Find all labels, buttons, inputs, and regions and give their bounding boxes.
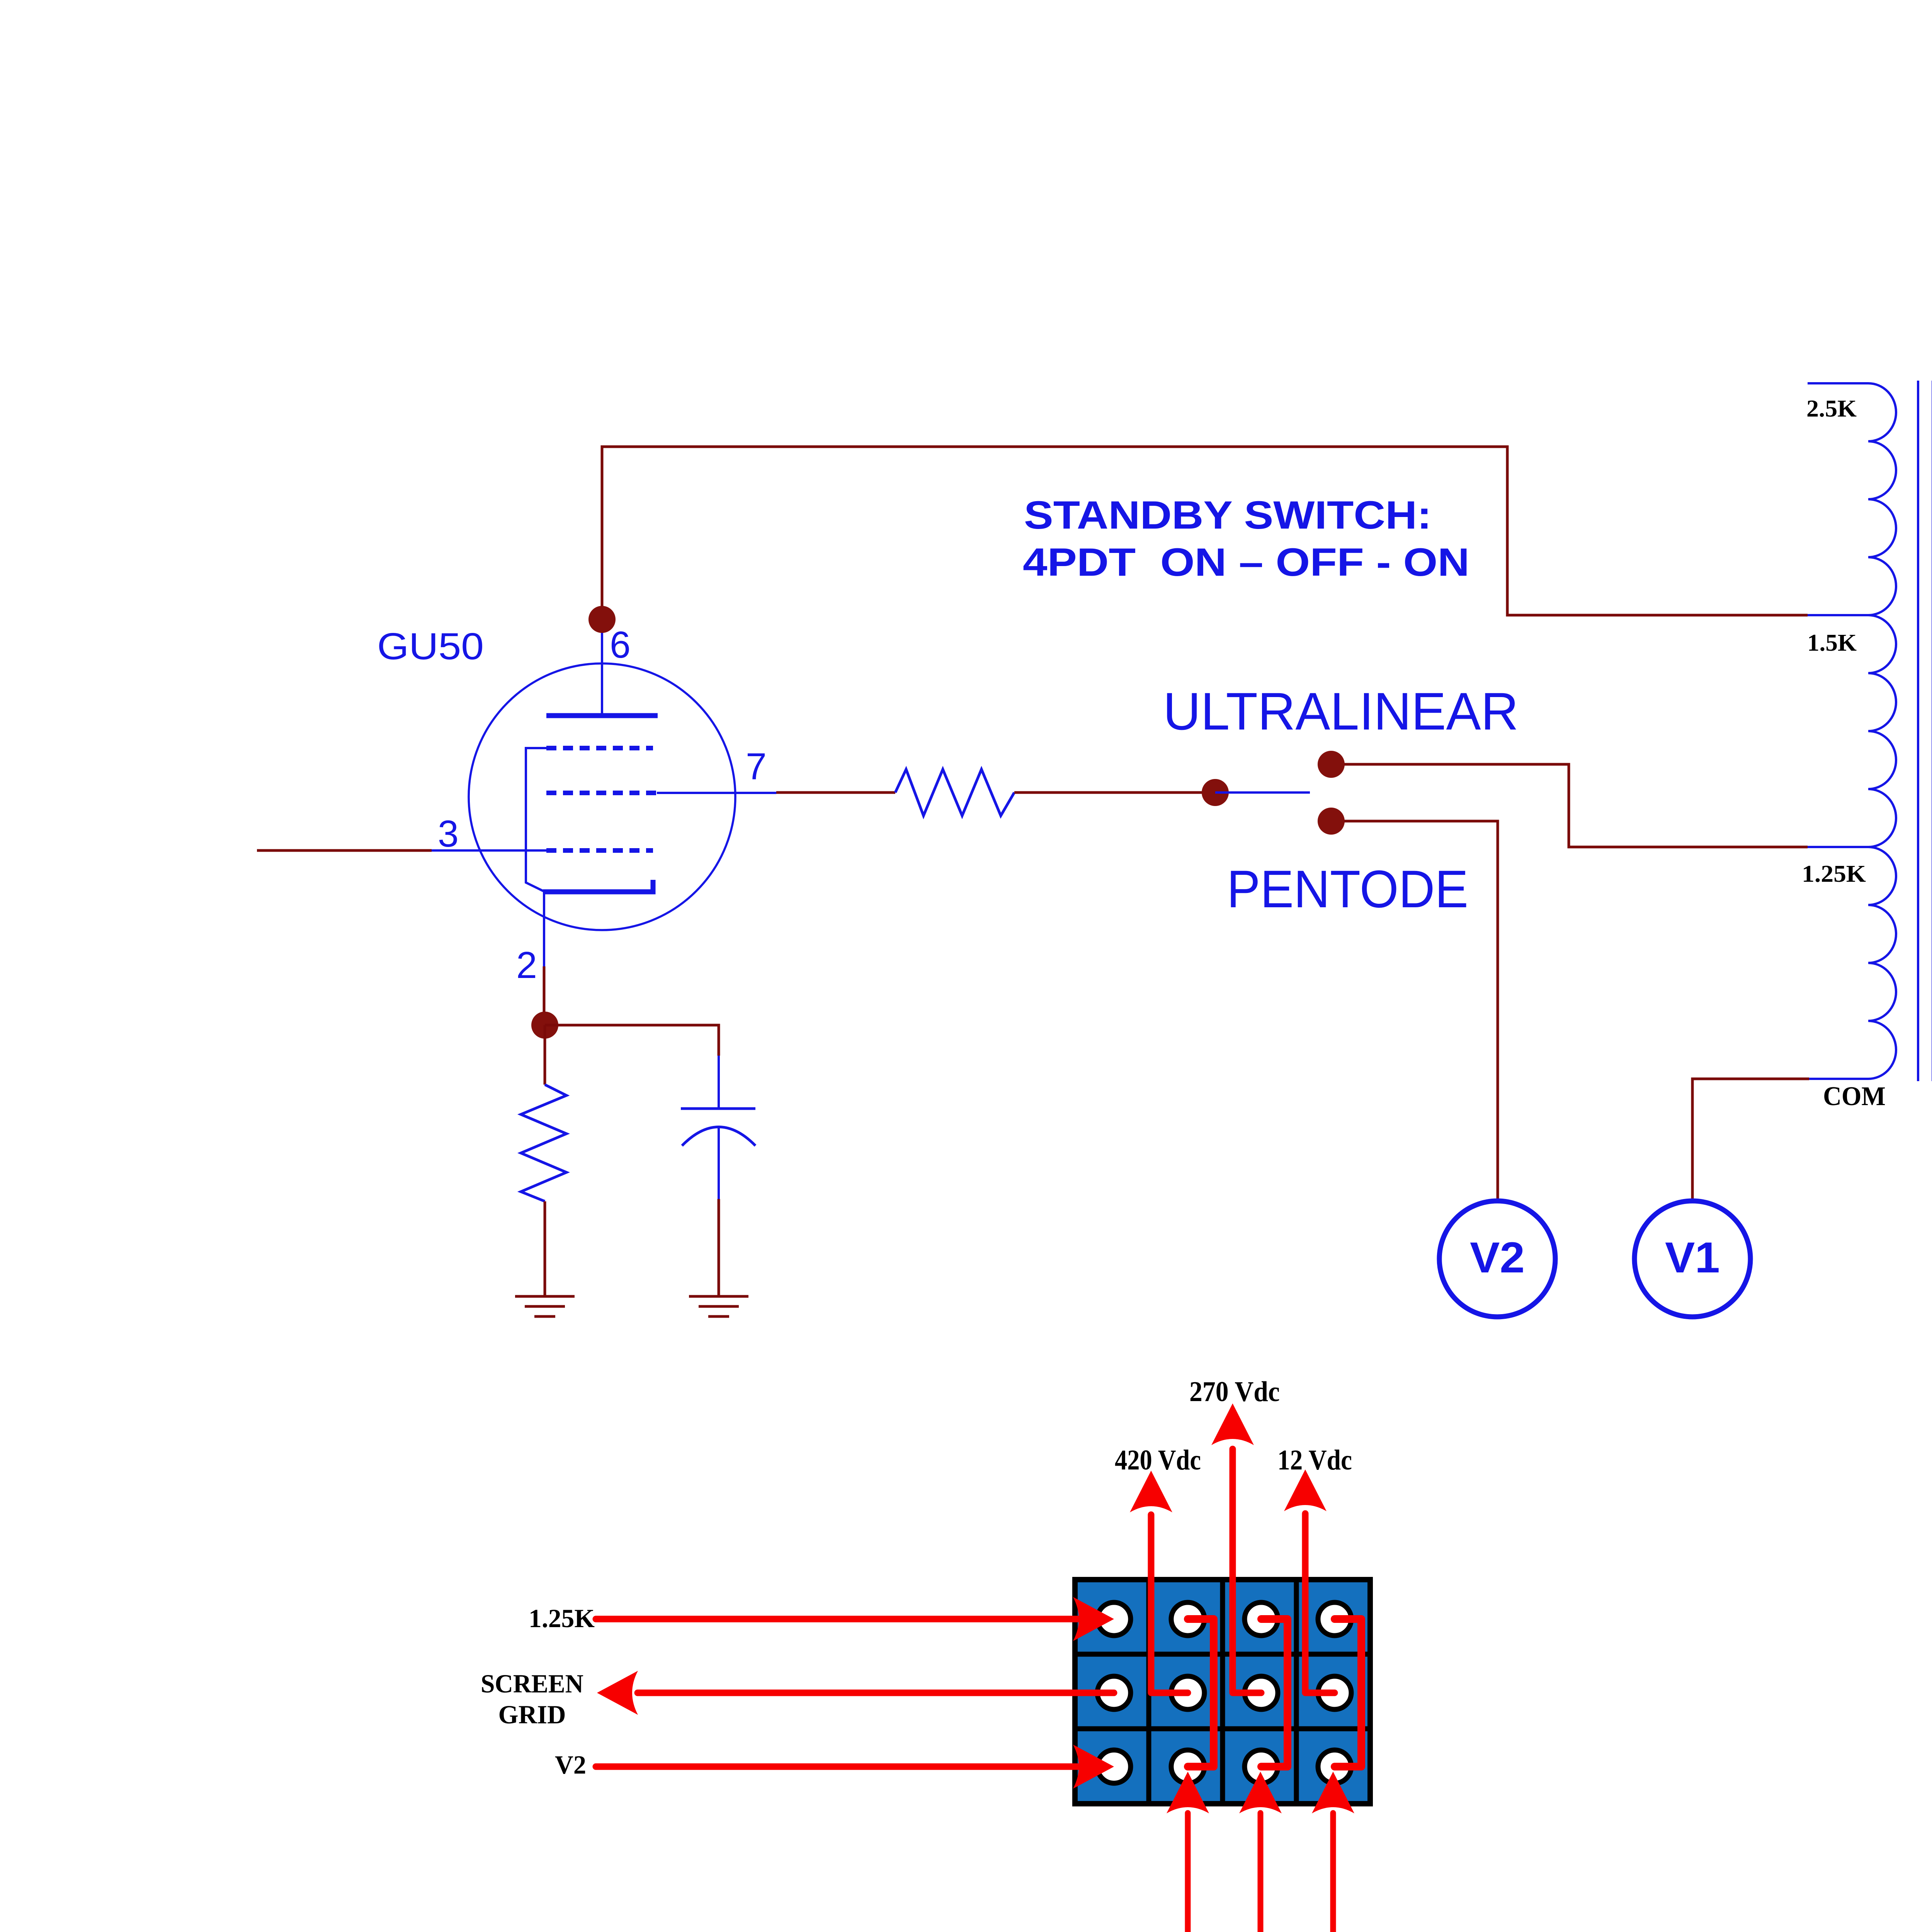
tube cathode: [543, 880, 653, 892]
wire pin3 lead (blue): [432, 849, 547, 852]
red line 12 Vdc: [1305, 1514, 1335, 1693]
wire R1 to switch pole: [1014, 791, 1215, 794]
primary tap 1.25K lead: [1808, 846, 1868, 848]
tube control grid (dashed): [546, 848, 653, 853]
red line 270 Vdc: [1233, 1449, 1261, 1693]
svg-text:2.5K: 2.5K: [1806, 396, 1857, 422]
terminal block TB1 cells: [1075, 1580, 1370, 1804]
red line SCREEN GRID: [638, 1690, 1114, 1696]
svg-text:4PDT ON – OFF - ON: 4PDT ON – OFF - ON: [1023, 540, 1469, 584]
capacitor C1 bottom lead (blue): [718, 1127, 720, 1199]
resistor R1 grid stopper: [895, 769, 1014, 816]
arrowhead 12 Vdc (up): [1284, 1469, 1327, 1511]
grid interconnect wire: [526, 748, 546, 891]
svg-text:7: 7: [746, 745, 767, 787]
primary tap 2.5K lead: [1808, 382, 1868, 384]
terminal holes row3: [1097, 1750, 1351, 1783]
primary tap COM lead: [1809, 1078, 1868, 1080]
red bottom arrow into col2 row3: [1185, 1813, 1191, 1932]
svg-text:3: 3: [438, 813, 459, 855]
transformer T1 primary winding: [1868, 383, 1896, 1079]
arrowhead 270 Vdc (up): [1211, 1403, 1254, 1445]
svg-text:STANDBY SWITCH:: STANDBY SWITCH:: [1024, 493, 1432, 537]
red jumper col4 row1-row3: [1335, 1619, 1361, 1767]
svg-text:COM: COM: [1823, 1082, 1886, 1111]
svg-text:1.25K: 1.25K: [1802, 861, 1866, 887]
svg-text:GRID: GRID: [498, 1700, 566, 1729]
wire node to resistor R2: [544, 1025, 546, 1085]
red bottom arrow into col4 row3: [1330, 1813, 1336, 1932]
tube plate (anode): [546, 713, 658, 718]
junction dot switch pole: [1202, 779, 1229, 806]
wire node to capacitor C1: [545, 1025, 719, 1056]
wire R2 to ground: [544, 1201, 546, 1296]
svg-text:6: 6: [610, 624, 631, 666]
BLOCK-SECTION: [481, 1376, 1370, 1932]
tube screen grid (dashed): [546, 746, 653, 750]
arrowhead SCREEN GRID (left): [597, 1671, 638, 1715]
red line 420 Vdc: [1151, 1515, 1188, 1693]
svg-text:GU50: GU50: [377, 625, 484, 667]
svg-text:1.25K: 1.25K: [529, 1604, 595, 1633]
svg-text:2: 2: [516, 944, 537, 986]
junction dot pin 6: [588, 606, 616, 633]
wire C1 to ground: [718, 1199, 720, 1296]
wire pin6 to 1.5K tap: [602, 447, 1808, 619]
svg-text:PENTODE: PENTODE: [1227, 860, 1468, 919]
wire pin3 stub: [257, 849, 432, 852]
primary tap 1.5K lead: [1808, 614, 1868, 616]
red line 1.25K to block: [596, 1616, 1079, 1622]
red jumper col2 row1-row3: [1188, 1619, 1214, 1767]
red bottom arrow into col3 row3: [1258, 1813, 1264, 1932]
wire V1 to primary COM: [1692, 1079, 1809, 1202]
svg-text:270 Vdc: 270 Vdc: [1189, 1376, 1280, 1408]
transformer core: [1918, 381, 1932, 1081]
voltmeter V2: [1439, 1201, 1555, 1317]
tube grid 2 (dashed): [546, 791, 658, 795]
capacitor C1 top lead (blue): [718, 1056, 720, 1109]
switch SW1 lever (blue): [1215, 791, 1310, 794]
arrowhead 420 Vdc (up): [1130, 1471, 1172, 1512]
resistor R2 cathode resistor: [521, 1085, 566, 1201]
svg-text:12 Vdc: 12 Vdc: [1277, 1444, 1352, 1476]
wire ULTRALINEAR contact to 1.25K tap: [1344, 764, 1808, 847]
switch contact PENTODE dot: [1318, 808, 1345, 835]
TUBE-SECTION: [257, 447, 1808, 1316]
voltmeter V1: [1634, 1201, 1750, 1317]
svg-text:ULTRALINEAR: ULTRALINEAR: [1163, 682, 1519, 741]
MID-SECTION: [895, 493, 1809, 1317]
wire cathode to node: [543, 966, 546, 1026]
terminal holes row2: [1097, 1676, 1351, 1709]
wire pin7 to resistor R1: [776, 791, 895, 794]
svg-text:SCREEN: SCREEN: [481, 1669, 583, 1698]
terminal block outline: [1075, 1580, 1370, 1804]
arrowhead V2: [1073, 1745, 1114, 1789]
tube U1 GU50 envelope: [469, 663, 735, 930]
red jumper col3 row1-row3: [1261, 1619, 1287, 1767]
ground GND2: [689, 1296, 748, 1316]
wire cathode lead (blue): [543, 892, 545, 966]
wire pin7 grid lead (blue): [657, 792, 776, 794]
TRANSFORMER-SECTION: [1802, 381, 1932, 1111]
junction dot cathode node: [531, 1012, 558, 1039]
svg-text:V2: V2: [555, 1750, 586, 1779]
svg-text:V2: V2: [1470, 1233, 1525, 1282]
capacitor C1 plates: [681, 1109, 755, 1146]
switch contact ULTRALINEAR dot: [1318, 751, 1345, 778]
svg-text:1.5K: 1.5K: [1807, 630, 1857, 656]
svg-text:420 Vdc: 420 Vdc: [1115, 1444, 1201, 1476]
ground GND1: [515, 1296, 575, 1316]
red line V2 to block: [596, 1764, 1079, 1770]
wire PENTODE contact to V2: [1344, 821, 1498, 1202]
arrowhead 1.25K: [1073, 1597, 1114, 1641]
terminal holes row1: [1097, 1602, 1351, 1636]
svg-text:V1: V1: [1665, 1233, 1720, 1282]
